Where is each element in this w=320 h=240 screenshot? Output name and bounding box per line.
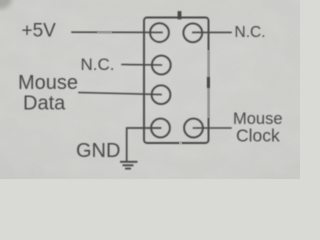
connector body outline <box>144 18 209 144</box>
wire N.C. left to pin 3 <box>122 64 161 67</box>
svg-text:Data: Data <box>23 93 66 115</box>
wire pin 2 to N.C. right <box>193 31 231 33</box>
bottom border small gap <box>179 142 182 144</box>
pin 1 circle (+5V) <box>150 23 169 42</box>
wire pin 6 to Mouse Clock <box>194 127 232 129</box>
right border key tab mark <box>207 77 210 88</box>
svg-text:Clock: Clock <box>236 126 280 146</box>
pin 5 circle (GND bottom left) <box>151 119 170 138</box>
svg-text:GND: GND <box>76 140 120 162</box>
faint section of +5V wire <box>97 31 112 33</box>
wire Mouse Data to pin 4 <box>79 93 161 95</box>
paper background <box>0 0 300 179</box>
wire +5V to pin 1 <box>72 31 162 33</box>
key notch top center <box>178 13 182 18</box>
pin 2 circle (N.C. top right) <box>183 23 202 42</box>
pin 6 circle (Mouse Clock) <box>184 119 203 138</box>
svg-text:Mouse: Mouse <box>18 72 78 94</box>
svg-text:N.C.: N.C. <box>81 55 115 74</box>
right border faded segment <box>207 50 209 118</box>
ground symbol bars <box>121 161 137 163</box>
wire GND: pin 5 to ground stem <box>127 128 161 162</box>
pin 4 circle (Mouse Data) <box>152 85 171 104</box>
pin 3 circle (N.C. left) <box>152 56 171 75</box>
svg-text:N.C.: N.C. <box>235 24 266 41</box>
top-left corner smudge <box>0 0 12 9</box>
svg-text:+5V: +5V <box>22 21 57 42</box>
